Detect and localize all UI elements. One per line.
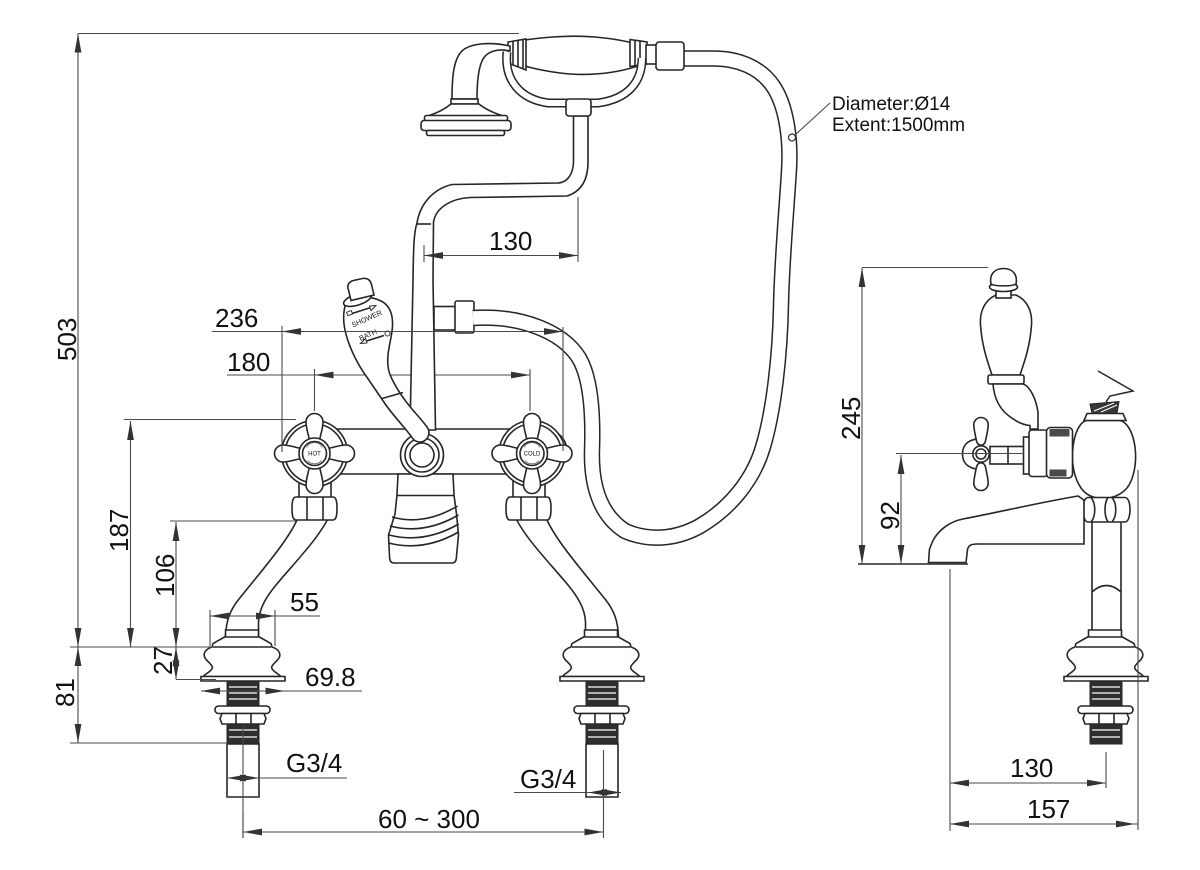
hex nut under COLD handle [506,497,551,520]
handshower hose connector [646,42,684,70]
body bar [287,429,567,474]
svg-text:Diameter:Ø14: Diameter:Ø14 [832,94,951,115]
dim 81 [50,647,228,743]
side spout [929,496,1085,563]
hose elbow on riser [434,301,474,333]
front left leg S-tube [226,512,332,637]
side leg tube [1092,505,1121,637]
dim 92 [875,454,1024,565]
svg-text:106: 106 [150,554,180,597]
svg-text:Extent:1500mm: Extent:1500mm [832,115,965,136]
svg-text:187: 187 [104,509,134,552]
left neck under HOT handle [299,472,331,502]
hose leader Diameter / Extent [789,94,966,141]
side body nut [1083,498,1130,523]
side cross handle [963,418,990,491]
dim 60 ~ 300 [243,804,604,838]
riser pipe [410,116,588,430]
dim 106 [150,521,296,647]
side porcelain lever [980,269,1038,430]
side diverter raised outline [1098,371,1133,402]
side deck line [858,563,968,565]
side diverter dark wedge [1090,402,1119,414]
svg-text:27: 27 [148,646,178,675]
dim 180 [227,347,530,411]
deck reference line [70,646,212,648]
left leg centerline [242,726,244,838]
dim 27 [148,646,216,679]
svg-text:130: 130 [1010,753,1053,783]
svg-text:G3/4: G3/4 [286,748,342,778]
handshower grip barrel [508,36,647,74]
front right leg base flange and threads [560,630,644,744]
side body [1072,421,1135,499]
side leg base flange and threads [1064,630,1148,744]
right leg centerline [603,750,605,838]
front right tail pipe [586,744,618,797]
handshower head neck [451,44,510,104]
shower hose loop [473,58,789,537]
dim 55 [210,587,320,646]
diverter rings [401,434,444,477]
svg-text:245: 245 [836,397,866,440]
cradle junction block [566,99,591,116]
dim 130 side [950,569,1106,831]
svg-text:60 ~ 300: 60 ~ 300 [378,804,480,834]
svg-text:503: 503 [52,318,82,361]
dim 157 [950,470,1138,830]
svg-text:92: 92 [875,501,905,530]
dim 69.8 [201,662,362,694]
handshower head bell and discs [421,104,511,136]
svg-text:130: 130 [489,226,532,256]
diverter lever with SHOWER BATH label [342,278,429,442]
side diverter plinth [1084,414,1126,421]
svg-text:69.8: 69.8 [305,662,356,692]
dim 130 top [424,197,578,262]
svg-text:COLD: COLD [524,452,541,458]
right neck under COLD handle [513,472,545,502]
dim G3/4 left [227,748,347,781]
dim G3/4 right [514,764,621,796]
dim 236 [212,303,563,452]
front right leg S-tube [513,512,619,637]
spout housing and mouth [389,474,459,563]
cradle hook [507,52,642,103]
svg-text:157: 157 [1027,794,1070,824]
svg-text:G3/4: G3/4 [520,764,576,794]
front left tail pipe [227,744,259,797]
side bonnet stack [990,428,1073,479]
svg-text:55: 55 [290,587,319,617]
svg-text:81: 81 [50,678,80,707]
front left leg base flange and threads [201,630,285,744]
dim 187 [104,420,296,648]
dim 245 [836,268,988,565]
svg-text:236: 236 [215,303,258,333]
HOT handle [275,414,355,494]
hex nut under HOT handle [292,497,337,520]
svg-text:HOT: HOT [308,452,321,458]
COLD handle [492,414,572,494]
svg-text:180: 180 [227,347,270,377]
dim 503 [52,34,519,648]
